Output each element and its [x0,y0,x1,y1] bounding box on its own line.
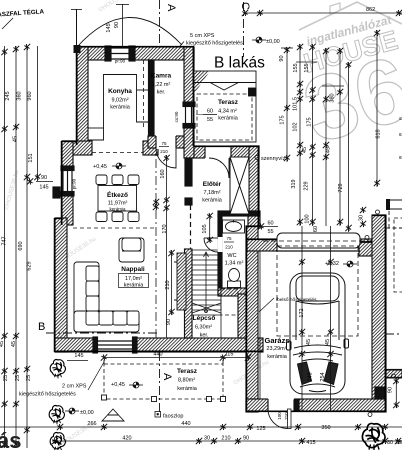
svg-text:Terasz: Terasz [177,368,198,375]
svg-text:175: 175 [307,117,313,126]
svg-text:45: 45 [13,136,19,142]
svg-text:WC: WC [227,253,236,259]
svg-text:9,02m²: 9,02m² [111,98,128,104]
svg-text:245: 245 [5,91,11,100]
svg-text:ker.: ker. [157,90,166,96]
svg-text:kerámia: kerámia [110,105,131,111]
svg-text:szennyvíz: szennyvíz [261,156,286,162]
svg-text:170: 170 [162,224,168,233]
svg-text:175: 175 [280,115,286,124]
svg-text:90: 90 [279,55,285,61]
svg-text:kerámia: kerámia [267,354,288,360]
svg-text:155: 155 [304,63,310,72]
svg-text:90: 90 [166,319,172,325]
svg-text:60: 60 [267,221,273,227]
svg-text:440: 440 [181,421,190,427]
svg-text:kiegészítő hőszigetelés: kiegészítő hőszigetelés [186,41,243,47]
svg-text:kerámia: kerámia [177,386,198,392]
svg-text:30: 30 [387,440,393,446]
svg-text:145: 145 [106,23,112,32]
svg-text:cs:90: cs:90 [174,111,179,122]
svg-text:60: 60 [207,109,213,115]
svg-text:17,0m²: 17,0m² [125,276,142,282]
svg-text:1,34 m²: 1,34 m² [225,261,244,267]
svg-text:629: 629 [27,261,33,270]
svg-text:319: 319 [291,179,297,188]
svg-text:729: 729 [338,183,344,192]
svg-text:266: 266 [87,421,96,427]
svg-text:151: 151 [28,153,34,162]
svg-text:55: 55 [207,117,213,123]
svg-text:6,30m²: 6,30m² [195,325,212,331]
svg-text:23,29m²: 23,29m² [266,346,286,352]
svg-text:25: 25 [15,375,21,381]
svg-text:30: 30 [359,215,365,221]
svg-text:45: 45 [0,341,5,347]
svg-text:pr:90: pr:90 [115,59,126,64]
svg-text:±0,00: ±0,00 [266,39,280,45]
svg-text:105: 105 [202,224,208,233]
svg-text:Előtér: Előtér [203,181,222,188]
svg-text:25: 25 [26,375,32,381]
svg-text:690: 690 [18,241,24,250]
svg-text:C: C [239,2,251,10]
svg-text:90: 90 [114,22,120,28]
svg-text:Lépcső: Lépcső [193,315,216,322]
svg-text:ás: ás [0,428,21,450]
svg-text:254: 254 [320,372,326,381]
svg-text:420: 420 [122,436,131,442]
svg-text:+0,45: +0,45 [93,164,107,170]
svg-text:kerámia: kerámia [109,207,126,212]
svg-text:229: 229 [304,181,310,190]
svg-text:45: 45 [302,147,308,153]
svg-text:Konyha: Konyha [108,88,132,95]
svg-text:±0,00: ±0,00 [80,410,94,416]
svg-text:ker.: ker. [200,333,209,339]
svg-text:360: 360 [17,91,23,100]
svg-text:60: 60 [313,226,319,232]
svg-text:B lakás: B lakás [214,55,265,72]
svg-text:Terasz: Terasz [218,99,239,106]
svg-text:Garázs: Garázs [264,336,289,345]
svg-text:45: 45 [11,341,17,347]
svg-text:747: 747 [2,236,8,245]
svg-text:45: 45 [326,147,332,153]
svg-text:210: 210 [221,436,230,442]
svg-text:960: 960 [27,91,33,100]
svg-text:75: 75 [161,141,167,146]
svg-text:618: 618 [376,129,382,138]
svg-text:440: 440 [153,352,162,358]
svg-text:kerámia: kerámia [202,198,223,204]
svg-text:210: 210 [160,149,168,154]
svg-text:25: 25 [3,375,9,381]
svg-text:1,22 m²: 1,22 m² [152,82,171,88]
svg-text:faoszlop: faoszlop [163,414,184,420]
svg-text:90: 90 [41,175,47,181]
svg-text:Nappali: Nappali [121,266,145,273]
svg-text:415: 415 [306,440,315,446]
svg-text:240: 240 [308,372,314,381]
svg-text:+0,45: +0,45 [111,382,125,388]
svg-text:8,80m²: 8,80m² [178,378,195,384]
svg-text:210: 210 [225,245,233,250]
svg-text:210: 210 [284,412,289,420]
svg-text:160: 160 [160,169,166,178]
svg-text:75: 75 [226,236,232,241]
svg-text:kiegészítő hőszigetelés: kiegészítő hőszigetelés [19,392,76,398]
svg-text:100: 100 [305,214,311,223]
svg-text:100: 100 [277,412,282,420]
svg-text:A: A [165,4,177,12]
svg-text:90: 90 [388,387,394,393]
svg-text:380: 380 [330,93,336,102]
svg-text:7,18m²: 7,18m² [203,190,220,196]
svg-text:pr:90: pr:90 [72,178,77,189]
svg-text:145: 145 [74,353,83,359]
svg-text:A: A [161,373,173,381]
svg-text:B: B [38,321,45,333]
svg-text:115: 115 [225,352,234,358]
svg-text:210: 210 [165,280,171,289]
svg-text:ibelső hőszigetelés: ibelső hőszigetelés [276,297,317,303]
svg-text:30: 30 [204,436,210,442]
svg-text:+0,32: +0,32 [325,261,339,267]
svg-text:125: 125 [256,426,265,432]
svg-text:kerámia: kerámia [124,283,145,289]
svg-text:4,34 m²: 4,34 m² [218,109,237,115]
svg-text:45: 45 [306,339,312,345]
svg-text:5 cm XPS: 5 cm XPS [190,33,215,39]
svg-text:Étkező: Étkező [107,190,128,199]
svg-text:155: 155 [293,63,299,72]
svg-text:kerámia: kerámia [218,116,239,122]
svg-text:55: 55 [267,229,273,235]
svg-text:145: 145 [39,185,48,191]
svg-text:102: 102 [293,122,299,131]
svg-text:2 cm XPS: 2 cm XPS [62,384,87,390]
svg-text:Kamra: Kamra [151,73,172,80]
svg-text:90: 90 [243,436,249,442]
svg-text:862: 862 [366,7,375,13]
svg-text:101,5: 101,5 [293,97,299,111]
svg-text:350: 350 [321,425,330,431]
